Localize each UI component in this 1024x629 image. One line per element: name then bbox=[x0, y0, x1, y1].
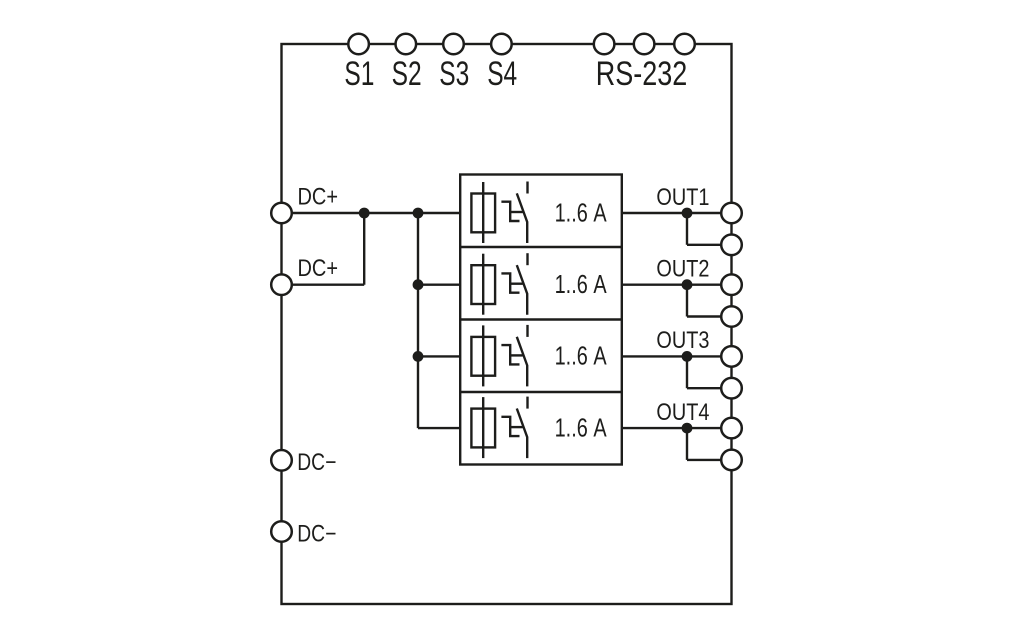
svg-text:RS-232: RS-232 bbox=[596, 55, 688, 93]
svg-text:S2: S2 bbox=[392, 55, 422, 93]
svg-text:OUT4: OUT4 bbox=[656, 399, 709, 426]
svg-text:DC−: DC− bbox=[297, 449, 336, 476]
svg-text:OUT2: OUT2 bbox=[656, 256, 709, 283]
svg-text:DC+: DC+ bbox=[298, 255, 339, 282]
svg-text:S1: S1 bbox=[344, 55, 374, 93]
svg-text:S3: S3 bbox=[439, 55, 469, 93]
svg-text:OUT1: OUT1 bbox=[656, 184, 709, 211]
svg-text:1..6 A: 1..6 A bbox=[555, 269, 608, 299]
svg-text:DC−: DC− bbox=[297, 520, 336, 547]
svg-text:1..6 A: 1..6 A bbox=[555, 197, 608, 227]
svg-text:1..6 A: 1..6 A bbox=[555, 341, 608, 371]
svg-text:S4: S4 bbox=[487, 55, 517, 93]
svg-text:1..6 A: 1..6 A bbox=[555, 412, 608, 442]
svg-text:OUT3: OUT3 bbox=[656, 327, 709, 354]
svg-text:DC+: DC+ bbox=[298, 183, 339, 210]
